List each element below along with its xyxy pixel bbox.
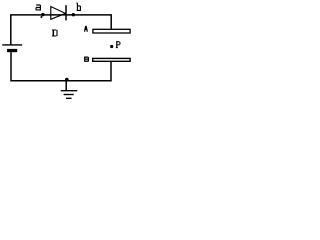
- label b: [77, 3, 81, 10]
- ground bar 3: [66, 97, 72, 99]
- node b: [72, 13, 75, 16]
- point P dot: [110, 45, 113, 48]
- diode D triangle (anode): [51, 7, 66, 20]
- label A: [84, 26, 88, 31]
- ground junction node: [65, 78, 69, 82]
- plate B: [93, 58, 130, 61]
- node a: [41, 13, 44, 16]
- label B: [84, 57, 88, 62]
- ground bar 2: [64, 94, 74, 96]
- battery negative plate (short thick): [7, 49, 17, 52]
- battery positive plate (long thin): [2, 44, 22, 46]
- ground stub wire: [65, 81, 67, 90]
- wire: battery bottom down and along bottom to right vertical, up to plate B: [11, 52, 111, 81]
- label P: [116, 42, 120, 48]
- label a: [36, 5, 41, 10]
- plate A: [93, 29, 130, 33]
- ground bar 1: [61, 90, 78, 92]
- label D: [52, 30, 57, 36]
- wire: top run from top-left corner to top-right corner: [11, 15, 111, 45]
- diode D cathode bar: [65, 5, 67, 20]
